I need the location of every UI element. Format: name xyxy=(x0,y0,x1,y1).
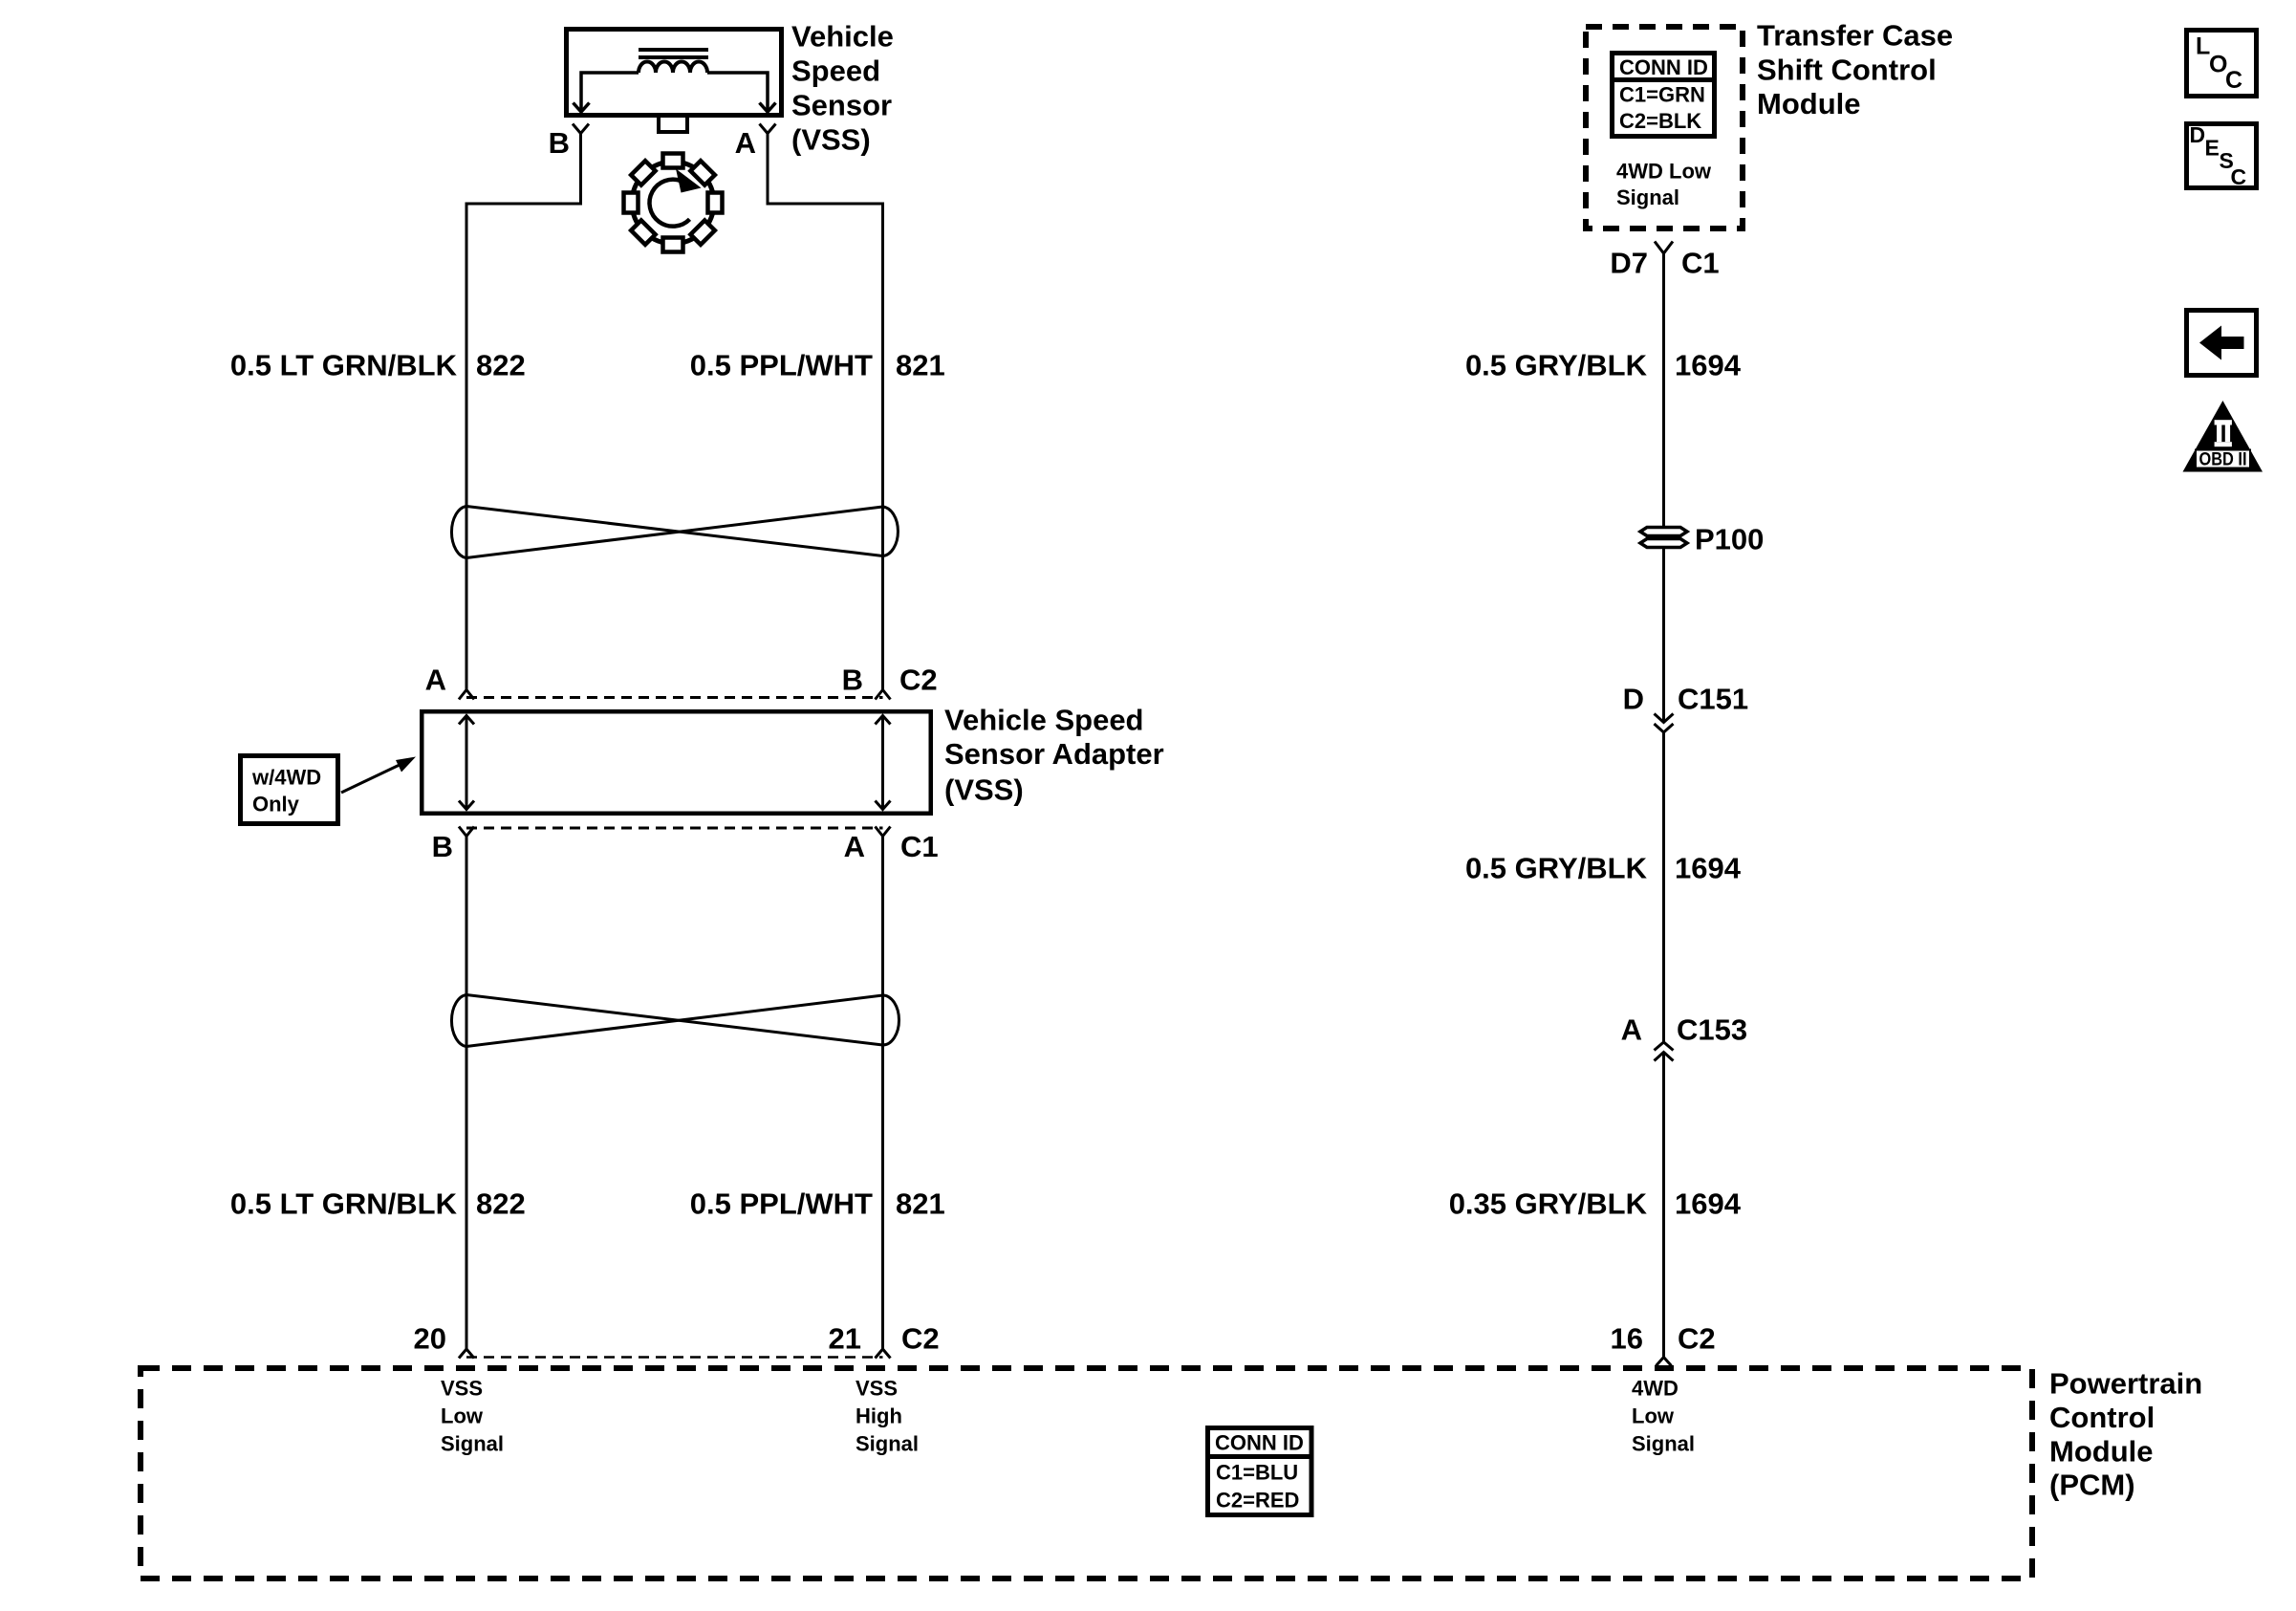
svg-text:C2: C2 xyxy=(899,664,938,697)
svg-text:C153: C153 xyxy=(1677,1013,1747,1047)
DESC icon box xyxy=(2187,122,2257,189)
pin A at C2 xyxy=(459,690,474,700)
VSS internal wire to pin A (arrow down) xyxy=(707,73,776,112)
svg-text:Sensor: Sensor xyxy=(791,89,892,122)
svg-text:B: B xyxy=(432,830,453,863)
svg-text:C: C xyxy=(2231,164,2247,189)
reluctor gear wheel xyxy=(624,154,723,252)
VSS magnetic core lines xyxy=(639,50,708,57)
svg-text:Control: Control xyxy=(2049,1401,2155,1434)
svg-text:C1: C1 xyxy=(1681,247,1720,280)
svg-text:(PCM): (PCM) xyxy=(2049,1469,2135,1502)
adapter double arrow right xyxy=(876,716,891,810)
svg-text:P100: P100 xyxy=(1695,523,1764,556)
svg-text:Signal: Signal xyxy=(441,1432,504,1456)
svg-text:0.5 GRY/BLK: 0.5 GRY/BLK xyxy=(1465,349,1648,382)
back arrow icon box xyxy=(2187,311,2257,376)
svg-text:822: 822 xyxy=(476,1187,526,1221)
svg-text:1694: 1694 xyxy=(1675,349,1742,382)
svg-text:C2=BLK: C2=BLK xyxy=(1619,109,1701,133)
wire 822 from pin B down-left xyxy=(466,134,581,690)
svg-text:VSS: VSS xyxy=(441,1377,483,1401)
svg-text:Low: Low xyxy=(1632,1404,1675,1428)
svg-text:C: C xyxy=(2225,67,2242,94)
svg-text:20: 20 xyxy=(414,1322,446,1356)
w/4WD callout arrow xyxy=(341,764,401,793)
vehicle speed sensor adapter box xyxy=(422,711,931,814)
in-line connector C153 xyxy=(1655,1042,1674,1061)
svg-text:821: 821 xyxy=(896,349,945,382)
connector C2 dashed line (adapter top) xyxy=(466,696,883,699)
svg-text:Vehicle Speed: Vehicle Speed xyxy=(944,704,1144,737)
adapter double arrow left xyxy=(459,716,474,810)
svg-text:High: High xyxy=(856,1404,902,1428)
svg-text:0.35 GRY/BLK: 0.35 GRY/BLK xyxy=(1449,1187,1648,1221)
PCM pin 20 xyxy=(459,1349,474,1359)
svg-text:D: D xyxy=(2190,122,2206,147)
svg-text:Speed: Speed xyxy=(791,54,880,88)
svg-text:Shift Control: Shift Control xyxy=(1757,54,1937,87)
svg-text:L: L xyxy=(2196,33,2210,60)
pin A at C1 xyxy=(876,827,891,837)
svg-text:C1: C1 xyxy=(900,830,939,863)
svg-text:OBD II: OBD II xyxy=(2199,450,2247,470)
svg-text:1694: 1694 xyxy=(1675,852,1742,885)
svg-text:Signal: Signal xyxy=(1616,185,1679,209)
svg-text:0.5 PPL/WHT: 0.5 PPL/WHT xyxy=(690,1187,873,1221)
pin B at C1 xyxy=(459,827,474,837)
svg-text:B: B xyxy=(549,126,570,160)
svg-text:Vehicle: Vehicle xyxy=(791,20,894,54)
svg-text:821: 821 xyxy=(896,1187,945,1221)
pin A of VSS xyxy=(760,124,776,134)
svg-text:Sensor Adapter: Sensor Adapter xyxy=(944,737,1164,771)
svg-text:0.5 GRY/BLK: 0.5 GRY/BLK xyxy=(1465,852,1648,885)
svg-text:Signal: Signal xyxy=(1632,1432,1695,1456)
svg-text:A: A xyxy=(1621,1013,1642,1047)
svg-text:CONN ID: CONN ID xyxy=(1215,1431,1304,1455)
OBD II icon triangle xyxy=(2183,401,2264,472)
svg-text:C151: C151 xyxy=(1678,683,1748,716)
pin D7 C1 of transfer case xyxy=(1655,242,1673,254)
wire 1694 mid segment xyxy=(1662,547,1665,721)
grommet P100 xyxy=(1640,528,1687,548)
svg-text:0.5 LT GRN/BLK: 0.5 LT GRN/BLK xyxy=(230,349,458,382)
in-line connector C151 xyxy=(1655,714,1674,733)
svg-text:w/4WD: w/4WD xyxy=(251,766,321,790)
svg-text:822: 822 xyxy=(476,349,526,382)
VSS mounting tab xyxy=(659,116,687,132)
svg-text:D7: D7 xyxy=(1610,247,1648,280)
PCM pin 21 xyxy=(876,1349,891,1359)
vehicle speed sensor VSS box xyxy=(567,30,782,116)
svg-text:A: A xyxy=(844,830,865,863)
svg-text:1694: 1694 xyxy=(1675,1187,1742,1221)
VSS internal wire to pin B (arrow down) xyxy=(574,73,639,112)
svg-text:E: E xyxy=(2205,136,2220,161)
wire 822 lower segment xyxy=(466,837,468,1350)
twisted pair symbol lower xyxy=(451,995,899,1047)
connector C1 dashed line (adapter bottom) xyxy=(466,827,883,830)
svg-text:16: 16 xyxy=(1611,1322,1643,1356)
wire 1694 upper segment xyxy=(1662,253,1665,528)
wire 1694 segment below C151 xyxy=(1662,732,1665,1043)
svg-text:A: A xyxy=(425,664,446,697)
svg-text:Low: Low xyxy=(441,1404,484,1428)
svg-text:C1=BLU: C1=BLU xyxy=(1216,1461,1298,1485)
svg-text:Transfer Case: Transfer Case xyxy=(1757,19,1953,53)
svg-text:Module: Module xyxy=(1757,87,1861,120)
LOC icon box xyxy=(2187,31,2257,97)
svg-text:C2: C2 xyxy=(901,1322,940,1356)
pin B of VSS xyxy=(573,124,589,134)
svg-text:Only: Only xyxy=(252,793,300,816)
thin dashed connector line pins 20-21 xyxy=(466,1356,883,1359)
svg-text:(VSS): (VSS) xyxy=(791,123,871,157)
powertrain control module PCM dashed box xyxy=(141,1368,2032,1578)
svg-text:Module: Module xyxy=(2049,1435,2154,1469)
wire 821 lower segment xyxy=(881,837,884,1350)
pin B at C2 xyxy=(876,690,891,700)
svg-text:D: D xyxy=(1623,683,1644,716)
svg-text:(VSS): (VSS) xyxy=(944,773,1024,807)
svg-text:C2=RED: C2=RED xyxy=(1216,1489,1299,1513)
gear rotation arrow xyxy=(649,180,689,227)
twisted pair symbol upper xyxy=(451,507,898,558)
svg-text:CONN ID: CONN ID xyxy=(1619,55,1708,79)
VSS pickup coil xyxy=(639,62,707,74)
svg-text:Powertrain: Powertrain xyxy=(2049,1367,2202,1401)
svg-text:0.5 PPL/WHT: 0.5 PPL/WHT xyxy=(690,349,873,382)
svg-text:Signal: Signal xyxy=(856,1432,919,1456)
CONN ID table (PCM) xyxy=(1205,1428,1313,1515)
wire 821 from pin A down-right xyxy=(768,134,883,690)
PCM pin 16 xyxy=(1657,1358,1672,1366)
svg-text:B: B xyxy=(842,664,863,697)
svg-text:4WD: 4WD xyxy=(1632,1377,1679,1401)
CONN ID table (transfer case) xyxy=(1610,54,1717,137)
svg-text:VSS: VSS xyxy=(856,1377,898,1401)
svg-text:21: 21 xyxy=(829,1322,861,1356)
svg-text:A: A xyxy=(735,126,756,160)
svg-text:C2: C2 xyxy=(1678,1322,1716,1356)
svg-text:C1=GRN: C1=GRN xyxy=(1619,83,1705,107)
svg-text:0.5 LT GRN/BLK: 0.5 LT GRN/BLK xyxy=(230,1187,458,1221)
svg-text:4WD Low: 4WD Low xyxy=(1616,160,1712,184)
wire 1694 lower segment xyxy=(1662,1053,1665,1358)
transfer case shift control module dashed box xyxy=(1586,27,1743,229)
w/4WD Only callout box xyxy=(241,756,338,824)
